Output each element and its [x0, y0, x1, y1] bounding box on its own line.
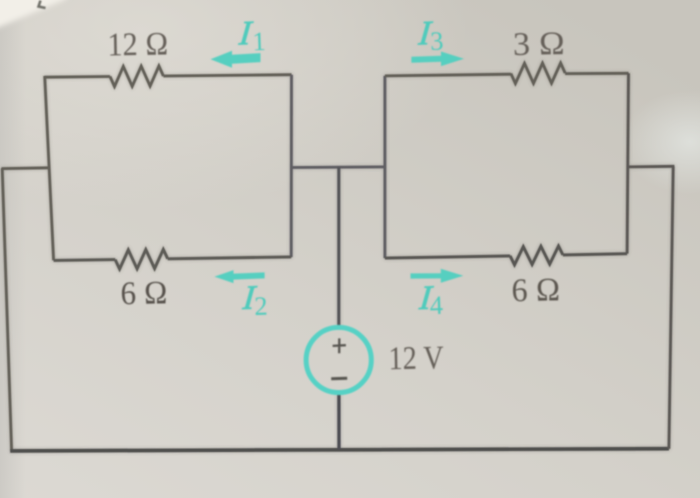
- svg-text:12 V: 12 V: [388, 340, 444, 377]
- svg-text:3 Ω: 3 Ω: [513, 26, 566, 63]
- voltage source minus sign: [331, 377, 347, 381]
- wire right loop top: [385, 73, 629, 76]
- svg-text:2: 2: [254, 291, 268, 321]
- current arrow I3: [411, 52, 464, 67]
- current arrow I4: [411, 269, 464, 283]
- current arrow I2: [214, 270, 264, 283]
- wire right stub: [627, 165, 674, 168]
- resistor R4 6ohm right: [510, 246, 563, 265]
- wire middle vertical upper: [337, 167, 340, 326]
- resistor R3 3ohm: [511, 63, 565, 84]
- wire left loop left vertical: [45, 76, 54, 260]
- wire left loop bottom: [54, 257, 292, 261]
- voltage source plus sign: [333, 338, 346, 353]
- wire right loop bottom: [385, 254, 627, 258]
- wire middle vertical lower: [337, 394, 340, 450]
- wire middle horizontal node: [291, 165, 385, 168]
- wire bottom: [10, 449, 669, 451]
- svg-text:6 Ω: 6 Ω: [120, 275, 168, 312]
- svg-text:3: 3: [430, 26, 444, 56]
- resistor R2 6ohm left: [115, 249, 168, 269]
- svg-text:4: 4: [429, 290, 443, 320]
- wire left loop top: [45, 75, 292, 78]
- current arrow I1: [211, 51, 261, 68]
- wire outer left vertical: [2, 168, 11, 450]
- wire left stub: [2, 166, 49, 170]
- wire outer right vertical: [669, 167, 673, 449]
- wire right loop left vertical: [383, 76, 386, 258]
- svg-text:12 Ω: 12 Ω: [107, 26, 169, 63]
- wire right loop right vertical: [627, 73, 628, 253]
- svg-text:6 Ω: 6 Ω: [511, 272, 560, 309]
- wire left loop right vertical: [290, 75, 293, 257]
- voltage source V1 circle: [306, 327, 371, 392]
- svg-text:1: 1: [252, 26, 266, 56]
- resistor R1 12ohm: [110, 66, 163, 87]
